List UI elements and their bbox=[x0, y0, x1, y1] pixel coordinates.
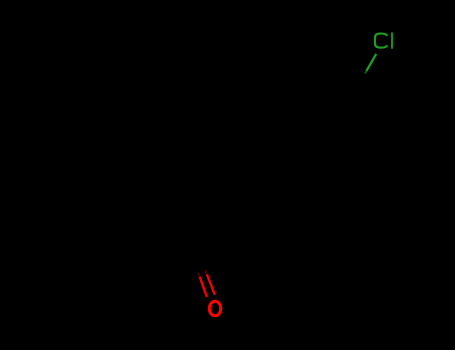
C-Cl bond, dark transition to black half bbox=[365, 71, 367, 74]
C=O double bond (red half toward O), right line bbox=[207, 275, 215, 295]
C=O double bond (red half toward O), left line bbox=[200, 277, 207, 297]
carbonyl oxygen label O bbox=[209, 301, 220, 316]
C-Cl bond (green half toward Cl) bbox=[366, 54, 376, 72]
chlorine atom label Cl bbox=[375, 33, 392, 49]
C=O double bond right line, dark transition to black half bbox=[205, 270, 207, 275]
C=O double bond left line, dark transition to black half bbox=[198, 273, 200, 278]
